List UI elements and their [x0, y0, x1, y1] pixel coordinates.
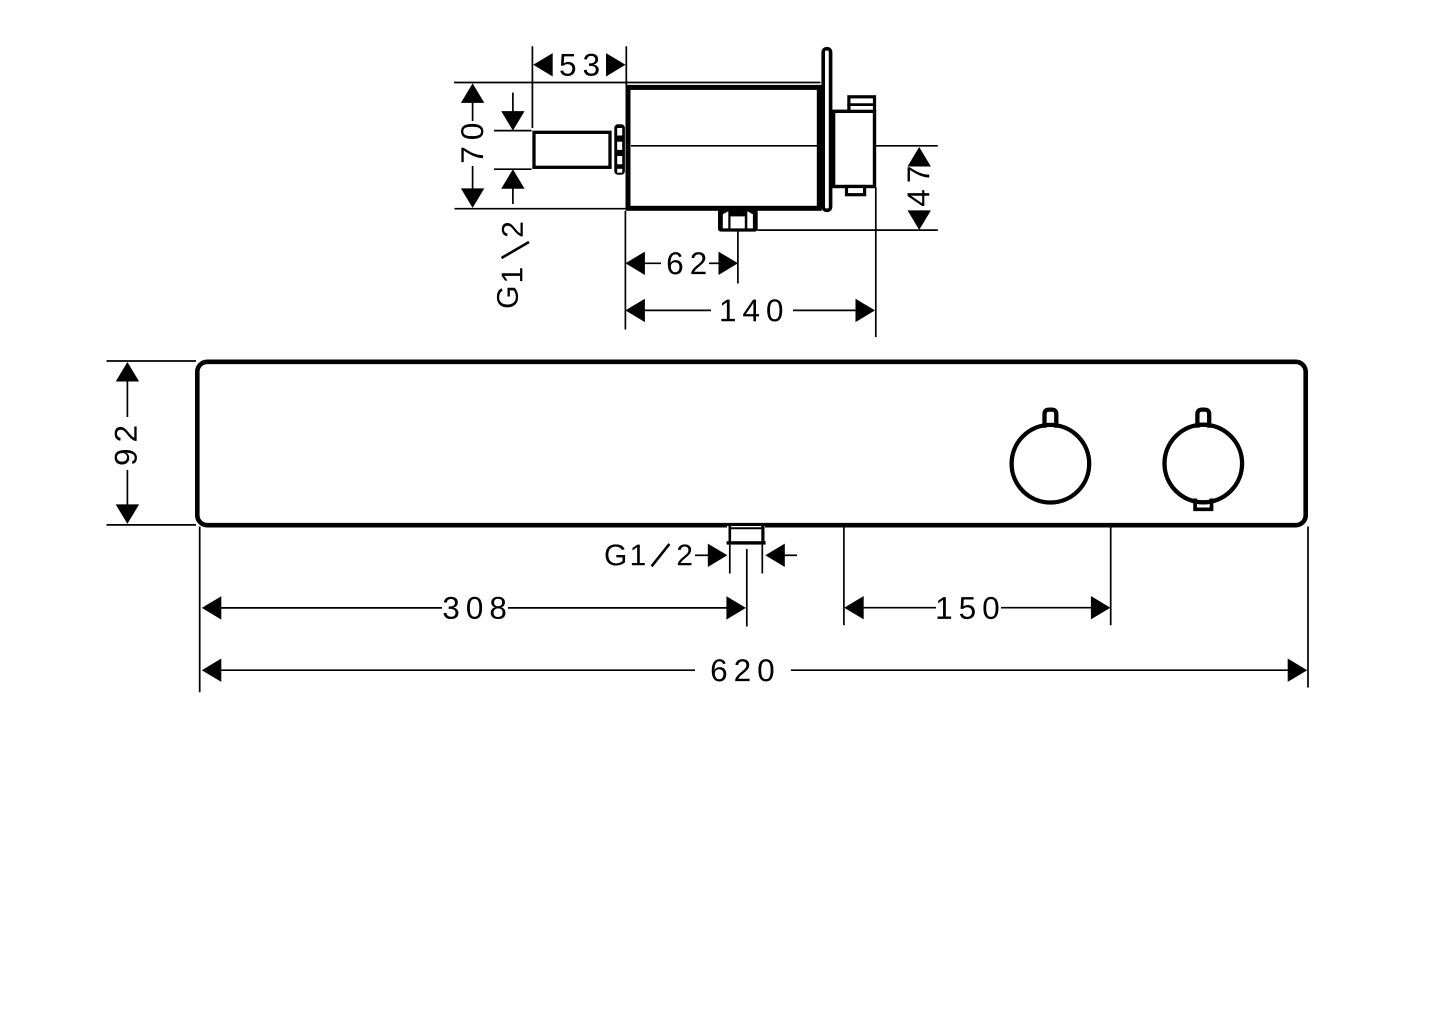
outlet centerline extension (top view) [737, 232, 739, 284]
inlet pipe hex nut [614, 124, 625, 174]
G1/2 arrow pointing right [695, 554, 710, 556]
G1/2 arrow pointing left [765, 544, 785, 567]
dimension 53 arrow left [533, 53, 553, 76]
pipe height tick bottom [494, 168, 532, 170]
dimension 620 label [712, 659, 774, 681]
dimension 70 arrow up [461, 83, 484, 103]
pipe height arrow up [501, 169, 524, 189]
G1/2 thread label (side view, rotated) [497, 223, 529, 308]
right knob grip tab top [1197, 410, 1209, 428]
handle grip tab bottom (side view) [847, 187, 865, 195]
dimension 92 arrow up [116, 362, 139, 382]
dimension 308 label [444, 597, 506, 619]
dimension 62/140 left extension line [624, 211, 626, 330]
pipe height arrow down [512, 93, 514, 114]
left thermostat knob circle [1012, 425, 1090, 503]
outlet centerline extension (front view) [746, 549, 748, 627]
inlet pipe nipple (left, side view) [534, 132, 610, 167]
dimension 47 arrow down [908, 210, 931, 230]
dimension 53 label [560, 54, 598, 76]
dimension 620 arrow right [1288, 659, 1308, 682]
dimension 150 line right [1001, 607, 1093, 609]
dimension 140 line right [793, 309, 858, 311]
dimension 70 arrow down [472, 166, 474, 190]
wall mounting plate (side view) [823, 49, 830, 211]
top reference line over body (70-dim top reference) [454, 82, 821, 84]
dimension 92 bottom reference line [107, 524, 197, 526]
dimension 150 left extension line [843, 526, 845, 626]
dimension 620 arrow left [202, 659, 222, 682]
G1/2 thread label (front view) [606, 544, 692, 566]
dimension 47 label [908, 167, 930, 206]
valve body outline (side view) [628, 87, 819, 208]
dimension 62 arrow right [709, 262, 721, 264]
right knob grip tab bottom [1195, 499, 1211, 510]
front panel outline [197, 362, 1305, 525]
dimension 308 line right [508, 607, 728, 609]
dimension 70 label [461, 124, 483, 162]
dimension 150 arrow left [844, 596, 864, 619]
bottom outlet hex nut (side view) [718, 209, 758, 232]
G1/2 extension line right [761, 545, 763, 574]
dimension 92 arrow down [126, 470, 128, 507]
dimension 150 right extension line [1110, 526, 1112, 626]
handle grip tab top (side view) [847, 97, 875, 112]
dimension 620 right extension line [1307, 527, 1309, 688]
bottom outlet nipple (front view) [727, 526, 766, 545]
dimension 140 label [721, 299, 782, 321]
dimension 47 arrow up [908, 147, 931, 167]
pipe height tick top [494, 130, 532, 132]
dimension 70 bottom reference line [455, 208, 627, 210]
dimension 620 line right [791, 669, 1289, 671]
dimension 53 extension line left [531, 46, 533, 128]
left knob grip tab [1045, 410, 1057, 428]
dimension 47 bottom reference line [758, 229, 938, 231]
dimension 308 arrow right [726, 596, 746, 619]
dimension 150 label [938, 597, 999, 619]
dimension 150 arrow right [1091, 596, 1111, 619]
dimension 140 arrow right [856, 299, 876, 322]
G1/2 extension line left [729, 545, 731, 574]
dimension 308 arrow left [202, 596, 222, 619]
dimension 62 arrow left [625, 252, 645, 275]
dimension 140 arrow left [625, 299, 645, 322]
handle knob body (side view) [834, 111, 875, 186]
centerline through valve body [631, 145, 938, 147]
dimension 53 arrow right [606, 53, 626, 76]
dimension 62 label [668, 252, 706, 274]
dimension 140 right extension line [875, 188, 877, 338]
right thermostat knob circle [1165, 425, 1243, 503]
dimension 92 top reference line [107, 360, 197, 362]
dimension 308/620 left extension line [199, 527, 201, 693]
dimension 53 extension line right [625, 46, 627, 85]
dimension 92 label [115, 427, 137, 465]
